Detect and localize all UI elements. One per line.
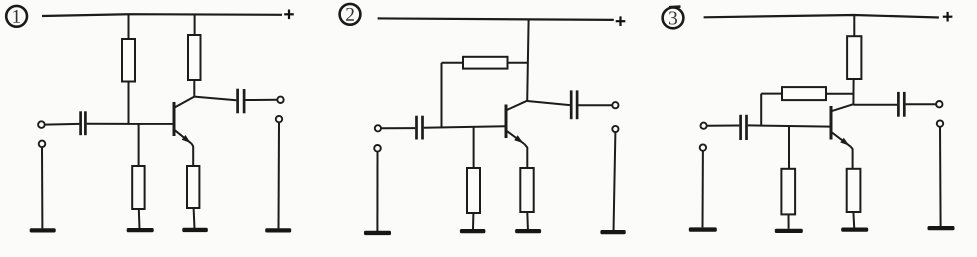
wire: C1 to base (base line) <box>87 123 174 125</box>
ground bar (output side, circuit 1) <box>265 228 291 232</box>
ground bar under R3 <box>127 228 154 232</box>
capacitor C5 (input coupling, circuit 3) <box>741 115 747 140</box>
wire: collector node to C6 <box>853 104 897 106</box>
wire: base node down to R10 <box>788 126 790 169</box>
wire: feedback resistor left lead (circuit 3) <box>761 93 782 95</box>
wire: input terminal to C5 <box>707 125 740 127</box>
ground bar under R4 <box>182 228 208 232</box>
ground bar under R11 <box>841 228 868 232</box>
wire: C3 to base (base line, circuit 2) <box>424 126 505 127</box>
transistor Q1 (NPN) <box>174 97 194 144</box>
input terminal (circuit 2) <box>375 125 381 131</box>
input terminal (circuit 3) <box>701 123 707 129</box>
resistor R3 (bias lower) <box>132 166 144 209</box>
resistor R7 (emitter, circuit 2) <box>520 168 533 212</box>
wire: R4 to ground <box>193 208 196 229</box>
resistor R11 (emitter, circuit 3) <box>847 169 861 212</box>
output terminal (circuit 1) <box>277 97 283 103</box>
output terminal (circuit 2) <box>612 102 618 108</box>
input ground terminal (circuit 1) <box>39 141 46 148</box>
wire: collector node to C4 <box>527 101 570 105</box>
resistor R2 (collector load) <box>188 35 201 80</box>
output ground terminal (circuit 2) <box>612 126 618 132</box>
wire: rail to R1 top <box>128 14 130 39</box>
resistor R4 (emitter) <box>187 166 199 208</box>
V+ supply rail (circuit 2) <box>378 18 614 20</box>
wire: R7 to ground <box>526 212 529 229</box>
output ground terminal (circuit 3) <box>937 120 943 126</box>
V+ supply rail (circuit 3) <box>704 15 939 18</box>
wire: collector node to C2 <box>194 97 236 101</box>
wire: R3 to ground <box>138 209 141 229</box>
wire: feedback resistor right lead (circuit 3) <box>826 93 854 95</box>
input terminal (circuit 1) <box>38 121 45 128</box>
wire: C4 to output terminal <box>578 104 612 106</box>
wire: base node down to R6 <box>473 127 475 169</box>
wire: input ground terminal to ground (circuit 2) <box>376 152 378 231</box>
input ground terminal (circuit 2) <box>374 145 381 152</box>
label circle 1 (stage number) <box>6 6 27 27</box>
ground bar (input side, circuit 1) <box>30 228 56 232</box>
V+ supply rail (circuit 1) <box>42 14 282 16</box>
label circle 2 (stage number) <box>340 4 361 25</box>
resistor R10 (base lower, circuit 3) <box>781 169 795 215</box>
wire: C6 to output terminal <box>906 103 937 105</box>
plus polarity mark (circuit 3) <box>943 12 953 22</box>
ground bar under R10 <box>775 229 803 233</box>
wire: C5 to base (base line, circuit 3) <box>748 125 830 126</box>
resistor R8 (collector load, circuit 3) <box>847 36 861 79</box>
output terminal (circuit 3) <box>936 101 942 107</box>
wire: output ground terminal to ground (circuit 2) <box>614 132 616 232</box>
wire: R11 to ground <box>852 212 855 228</box>
ground bar (output side, circuit 3) <box>928 226 955 230</box>
transistor Q2 (NPN) <box>506 101 527 144</box>
wire: feedback resistor left lead <box>442 62 464 64</box>
scan artifact dash above label 3 <box>669 5 681 8</box>
wire: Q1 emitter down to R4 <box>192 144 193 167</box>
capacitor C3 (input coupling, circuit 2) <box>417 116 423 140</box>
wire: R1 bottom to base node <box>128 82 130 125</box>
ground bar under R7 <box>515 229 541 233</box>
transistor Q3 (NPN) <box>831 104 853 146</box>
wire: input terminal to C3 <box>381 127 415 129</box>
wire: input terminal to C1 <box>45 123 80 126</box>
wire: R8 bottom to collector node <box>852 79 854 105</box>
capacitor C1 (input coupling) <box>81 111 86 135</box>
wire: feedback left lead down to base line (circuit 3) <box>760 94 762 126</box>
wire: rail to R8 top <box>853 15 855 36</box>
capacitor C2 (output coupling) <box>238 89 245 114</box>
wire: Q3 emitter down to R11 <box>850 146 852 169</box>
ground bar (input side, circuit 3) <box>689 227 717 231</box>
wire: base node down to R3 <box>138 124 140 167</box>
wire: input ground terminal to ground <box>41 147 43 228</box>
ground bar (input side, circuit 2) <box>364 231 391 235</box>
input ground terminal (circuit 3) <box>700 144 706 150</box>
wire: C2 to output terminal <box>245 99 277 101</box>
label circle 3 (stage number) <box>663 8 684 29</box>
wire: rail to R2 top <box>194 14 196 35</box>
wire: output ground terminal to ground <box>278 122 281 228</box>
resistor R6 (base lower, circuit 2) <box>467 168 480 213</box>
plus polarity mark (circuit 2) <box>616 16 626 26</box>
wire: feedback resistor right lead <box>507 62 528 64</box>
wire: rail down to collector node (circuit 2) <box>527 20 528 102</box>
wire: R6 to ground <box>472 213 474 229</box>
wire: R10 to ground <box>788 214 790 228</box>
capacitor C6 (output coupling, circuit 3) <box>898 92 904 117</box>
capacitor C4 (output coupling, circuit 2) <box>571 90 577 119</box>
resistor R9 (feedback, circuit 3) <box>782 87 826 100</box>
output ground terminal (circuit 1) <box>276 116 282 122</box>
wire: feedback left lead down to base line <box>441 63 443 128</box>
resistor R1 (bias upper) <box>122 39 135 82</box>
wire: input ground terminal to ground (circuit 3) <box>702 151 704 228</box>
plus polarity mark (circuit 1) <box>284 10 294 20</box>
ground bar under R6 <box>460 229 486 233</box>
wire: R2 bottom to collector node <box>193 80 195 97</box>
resistor R5 (feedback, circuit 2) <box>463 57 508 69</box>
ground bar (output side, circuit 2) <box>600 230 625 234</box>
wire: Q2 emitter down to R7 <box>524 144 527 169</box>
wire: output ground terminal to ground (circuit 3) <box>939 127 942 226</box>
